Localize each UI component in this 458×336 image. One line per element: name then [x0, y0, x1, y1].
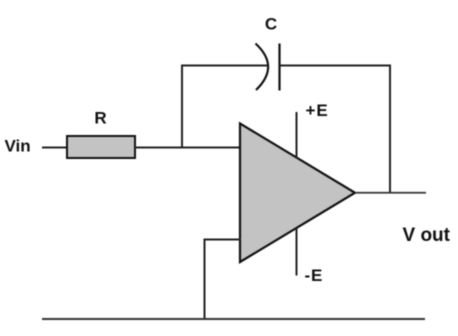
wire ground rail	[42, 318, 425, 320]
-E supply pin	[296, 228, 298, 276]
+E supply pin	[296, 112, 298, 158]
svg-text:R: R	[94, 109, 106, 128]
wire top feedback right segment	[280, 65, 391, 67]
svg-text:+E: +E	[306, 101, 329, 120]
wire feedback vertical left (node at inverting input)	[181, 65, 183, 149]
op-amp U1 triangle	[240, 124, 355, 263]
wire top feedback left segment	[181, 65, 267, 67]
wire non-inverting input horizontal	[205, 239, 242, 241]
svg-text:C: C	[265, 15, 277, 34]
wire output	[355, 192, 426, 194]
resistor R	[67, 136, 135, 158]
svg-text:Vin: Vin	[5, 137, 31, 156]
svg-text:V out: V out	[403, 225, 451, 246]
wire feedback vertical right to output	[389, 65, 391, 194]
svg-text:-E: -E	[305, 266, 324, 285]
wire Vin to resistor	[42, 147, 67, 149]
capacitor C	[256, 44, 280, 91]
wire non-inverting input vertical to ground rail	[204, 239, 206, 321]
wire resistor to op-amp inverting input	[135, 147, 241, 149]
